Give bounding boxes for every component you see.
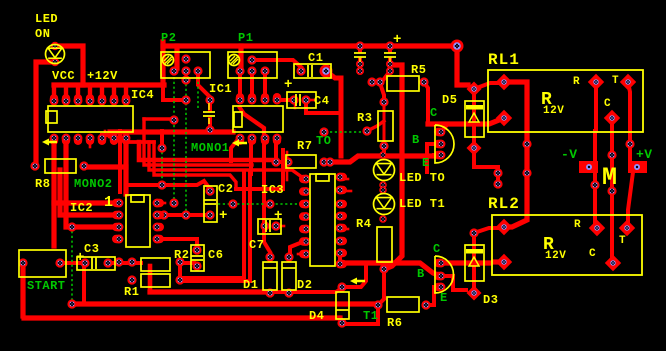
svg-text:-V: -V — [561, 147, 578, 162]
svg-text:P1: P1 — [238, 31, 253, 45]
svg-text:E: E — [422, 156, 430, 170]
svg-text:T1: T1 — [363, 309, 378, 323]
svg-text:C6: C6 — [208, 248, 223, 262]
svg-text:R3: R3 — [357, 111, 372, 125]
svg-text:T: T — [619, 235, 626, 247]
svg-text:RL2: RL2 — [488, 195, 520, 213]
svg-text:C4: C4 — [314, 94, 329, 108]
svg-text:B: B — [417, 267, 425, 281]
svg-text:C7: C7 — [249, 238, 264, 252]
svg-text:R6: R6 — [387, 316, 402, 330]
svg-text:D4: D4 — [309, 309, 324, 323]
svg-text:P2: P2 — [161, 31, 176, 45]
svg-text:+V: +V — [636, 147, 653, 162]
svg-text:C: C — [433, 242, 441, 256]
svg-text:R: R — [573, 76, 580, 88]
svg-text:C2: C2 — [218, 182, 233, 196]
svg-text:START: START — [27, 279, 66, 293]
svg-text:IC3: IC3 — [261, 183, 284, 197]
svg-text:12V: 12V — [545, 250, 566, 262]
svg-text:R8: R8 — [35, 177, 50, 191]
svg-text:D1: D1 — [243, 278, 258, 292]
svg-text:LED TO: LED TO — [399, 171, 445, 185]
svg-text:VCC: VCC — [52, 69, 75, 83]
svg-text:C: C — [604, 98, 611, 110]
svg-text:MONO2: MONO2 — [74, 177, 113, 191]
svg-text:C: C — [430, 106, 438, 120]
svg-text:M: M — [602, 163, 617, 192]
svg-text:D5: D5 — [442, 93, 457, 107]
svg-text:1: 1 — [104, 194, 113, 211]
svg-text:ON: ON — [35, 27, 50, 41]
svg-text:B: B — [412, 133, 420, 147]
svg-text:+: + — [393, 32, 401, 48]
svg-text:C: C — [589, 248, 596, 260]
svg-text:12V: 12V — [543, 105, 564, 117]
svg-text:IC4: IC4 — [131, 88, 154, 102]
svg-text:E: E — [440, 291, 448, 305]
svg-text:+: + — [284, 77, 292, 93]
svg-text:TO: TO — [316, 134, 331, 148]
svg-text:R2: R2 — [174, 248, 189, 262]
svg-text:C1: C1 — [308, 51, 323, 65]
svg-text:T: T — [612, 75, 619, 87]
svg-text:C3: C3 — [84, 242, 99, 256]
svg-text:D2: D2 — [297, 278, 312, 292]
svg-text:MONO1: MONO1 — [191, 141, 230, 155]
svg-text:R7: R7 — [297, 139, 312, 153]
svg-text:R5: R5 — [411, 63, 426, 77]
svg-text:LED: LED — [35, 12, 58, 26]
svg-text:+: + — [76, 250, 84, 266]
svg-text:RL1: RL1 — [488, 51, 520, 69]
svg-text:+: + — [274, 208, 282, 224]
svg-text:+: + — [219, 208, 227, 224]
svg-text:R4: R4 — [356, 217, 371, 231]
svg-text:IC1: IC1 — [209, 82, 232, 96]
svg-text:R1: R1 — [124, 285, 139, 299]
svg-text:+12V: +12V — [87, 69, 118, 83]
svg-text:LED T1: LED T1 — [399, 197, 445, 211]
svg-text:D3: D3 — [483, 293, 498, 307]
svg-text:IC2: IC2 — [70, 201, 93, 215]
svg-text:R: R — [574, 219, 581, 231]
